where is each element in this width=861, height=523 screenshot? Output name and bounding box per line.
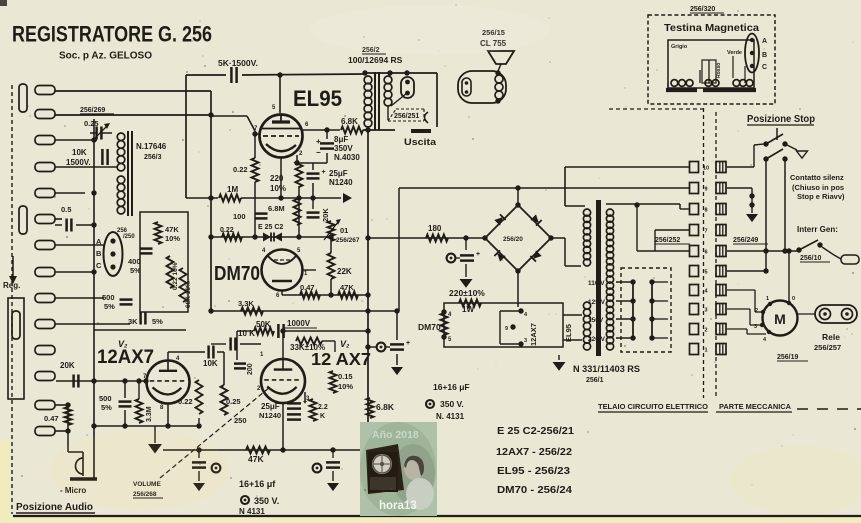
svg-text:10%: 10%	[338, 382, 353, 391]
svg-text:47K: 47K	[248, 454, 264, 464]
svg-text:7: 7	[704, 229, 707, 235]
svg-text:5%: 5%	[101, 403, 112, 412]
svg-text:16+16 μf: 16+16 μf	[239, 479, 276, 489]
svg-text:5%: 5%	[104, 302, 115, 311]
svg-text:350V: 350V	[334, 144, 353, 153]
svg-text:+: +	[322, 169, 326, 176]
svg-text:8μF: 8μF	[334, 135, 348, 144]
svg-text:100/12694 RS: 100/12694 RS	[348, 55, 403, 65]
svg-text:N.4030: N.4030	[334, 153, 360, 162]
svg-text:EL95: EL95	[293, 86, 342, 111]
svg-text:10%: 10%	[165, 234, 180, 243]
svg-text:20K: 20K	[60, 361, 75, 370]
svg-text:5K·1500V.: 5K·1500V.	[218, 58, 258, 68]
svg-text:1500V.: 1500V.	[66, 158, 91, 167]
svg-text:Stop e Riavv): Stop e Riavv)	[797, 192, 845, 201]
svg-text:DM70: DM70	[418, 322, 441, 332]
svg-text:256/249: 256/249	[733, 237, 758, 244]
svg-text:TELAIO CIRCUITO ELETTRICO: TELAIO CIRCUITO ELETTRICO	[598, 404, 709, 411]
svg-text:V₂: V₂	[340, 339, 350, 349]
svg-text:100: 100	[233, 212, 246, 221]
svg-text:150V: 150V	[588, 317, 604, 324]
svg-text:20K: 20K	[321, 208, 330, 222]
svg-text:DM70: DM70	[214, 263, 260, 285]
svg-text:Verde: Verde	[727, 50, 742, 56]
svg-text:220: 220	[270, 174, 284, 183]
svg-text:Rosso: Rosso	[716, 63, 722, 78]
svg-text:200: 200	[247, 363, 254, 375]
svg-text:9: 9	[505, 326, 508, 332]
svg-text:3: 3	[524, 338, 527, 344]
svg-text:2: 2	[755, 308, 758, 314]
svg-text:6.8K: 6.8K	[376, 402, 395, 412]
svg-text:220±10%: 220±10%	[449, 288, 485, 298]
svg-text:B: B	[762, 52, 767, 59]
svg-text:256/269: 256/269	[80, 107, 105, 114]
svg-text:400: 400	[128, 257, 141, 266]
svg-text:256/257: 256/257	[814, 343, 841, 352]
svg-text:Reg.: Reg.	[3, 281, 20, 290]
svg-text:C: C	[96, 261, 102, 270]
svg-text:+: +	[406, 340, 410, 347]
svg-text:350 V.: 350 V.	[254, 496, 279, 506]
svg-text:12AX7 - 256/22: 12AX7 - 256/22	[496, 447, 572, 458]
svg-text:E 25 C2: E 25 C2	[258, 224, 283, 231]
svg-text:0.5: 0.5	[61, 205, 71, 214]
svg-text:Año 2018: Año 2018	[372, 429, 419, 441]
svg-text:EL95 - 256/23: EL95 - 256/23	[497, 466, 571, 477]
svg-text:0.25: 0.25	[226, 397, 241, 406]
svg-text:25μF: 25μF	[261, 402, 280, 411]
svg-text:DM70 - 256/24: DM70 - 256/24	[497, 485, 572, 496]
svg-text:500: 500	[99, 394, 112, 403]
svg-text:01: 01	[340, 226, 348, 235]
svg-text:10K: 10K	[203, 359, 218, 368]
svg-text:0.15: 0.15	[338, 372, 353, 381]
svg-text:Posizione Audio: Posizione Audio	[16, 501, 93, 513]
svg-text:Posizione Stop: Posizione Stop	[747, 114, 815, 125]
svg-text:hora13: hora13	[379, 500, 417, 512]
svg-text:0.47: 0.47	[44, 414, 59, 423]
svg-text:A: A	[762, 38, 767, 45]
svg-text:REGISTRATORE G. 256: REGISTRATORE G. 256	[12, 22, 212, 47]
svg-text:3: 3	[704, 308, 707, 314]
svg-text:B: B	[96, 249, 102, 258]
svg-text:N1240: N1240	[259, 411, 281, 420]
svg-text:Uscita: Uscita	[404, 137, 437, 148]
svg-text:N.17646: N.17646	[136, 142, 167, 151]
svg-text:6: 6	[704, 250, 707, 256]
svg-text:110 V: 110 V	[588, 280, 605, 287]
svg-text:256/267: 256/267	[336, 237, 360, 244]
svg-text:/250: /250	[123, 234, 135, 240]
svg-text:256/10: 256/10	[800, 255, 822, 262]
svg-text:220 V: 220 V	[588, 336, 606, 343]
svg-text:12 AX7: 12 AX7	[311, 349, 371, 369]
svg-text:M: M	[774, 311, 786, 327]
svg-text:0.22: 0.22	[220, 227, 234, 234]
svg-text:6.8M: 6.8M	[268, 204, 285, 213]
svg-text:1000V: 1000V	[287, 319, 311, 328]
svg-text:47K: 47K	[165, 225, 179, 234]
svg-text:256/3: 256/3	[144, 154, 162, 161]
svg-text:12AX7: 12AX7	[97, 347, 154, 368]
svg-text:47K: 47K	[340, 283, 354, 292]
svg-text:50K: 50K	[256, 320, 271, 329]
svg-text:0.22 10%: 0.22 10%	[172, 262, 179, 290]
svg-text:Rele: Rele	[822, 332, 840, 342]
svg-text:N 331/11403 RS: N 331/11403 RS	[573, 364, 640, 375]
svg-text:3K: 3K	[128, 317, 138, 326]
svg-text:22K: 22K	[337, 267, 352, 276]
svg-text:E 25 C2-256/21: E 25 C2-256/21	[497, 426, 574, 437]
svg-text:5: 5	[704, 270, 707, 276]
svg-text:2.2: 2.2	[318, 404, 328, 411]
svg-text:6.8K: 6.8K	[341, 117, 358, 126]
svg-text:Testina Magnetica: Testina Magnetica	[664, 22, 759, 34]
svg-text:0.22: 0.22	[233, 165, 248, 174]
svg-text:Grigio: Grigio	[671, 44, 688, 50]
svg-text:K: K	[320, 413, 325, 420]
svg-text:8: 8	[704, 208, 707, 214]
svg-text:3.3K: 3.3K	[238, 299, 254, 308]
svg-text:250: 250	[234, 416, 247, 425]
svg-text:68K 10%: 68K 10%	[185, 281, 192, 308]
svg-text:Interr Gen:: Interr Gen:	[797, 225, 838, 234]
svg-text:256/20: 256/20	[503, 236, 523, 243]
svg-text:256/19: 256/19	[777, 354, 799, 361]
svg-text:3.3M: 3.3M	[146, 406, 153, 422]
svg-text:0: 0	[792, 296, 795, 302]
svg-text:2: 2	[704, 328, 707, 334]
svg-text:+: +	[316, 137, 321, 146]
svg-text:350 V.: 350 V.	[440, 399, 464, 409]
svg-text:256/251: 256/251	[394, 113, 419, 120]
svg-text:(Chiuso in pos: (Chiuso in pos	[792, 183, 844, 192]
svg-text:1W: 1W	[462, 305, 474, 314]
svg-text:Contatto silenz: Contatto silenz	[790, 173, 844, 182]
svg-text:256/252: 256/252	[655, 237, 680, 244]
svg-text:3: 3	[754, 324, 757, 330]
svg-text:Soc. p Az. GELOSO: Soc. p Az. GELOSO	[59, 50, 152, 62]
svg-text:5%: 5%	[152, 317, 163, 326]
svg-text:9: 9	[704, 187, 707, 193]
svg-text:A: A	[96, 237, 102, 246]
svg-text:−: −	[316, 148, 321, 157]
svg-text:180: 180	[428, 224, 442, 233]
svg-text:10K: 10K	[72, 148, 87, 157]
svg-text:0.22: 0.22	[178, 397, 193, 406]
svg-text:+: +	[476, 251, 480, 258]
svg-text:25μF: 25μF	[329, 169, 348, 178]
svg-text:10%: 10%	[270, 184, 286, 193]
svg-text:5%: 5%	[130, 266, 141, 275]
svg-text:0.47: 0.47	[300, 283, 315, 292]
svg-text:N1240: N1240	[329, 178, 353, 187]
svg-text:C: C	[762, 64, 767, 71]
svg-text:1: 1	[704, 348, 707, 354]
svg-text:125 V: 125 V	[588, 299, 606, 306]
svg-text:500: 500	[102, 293, 115, 302]
svg-text:12AX7: 12AX7	[529, 323, 538, 346]
svg-text:1: 1	[766, 296, 769, 302]
svg-text:N 4131: N 4131	[239, 507, 265, 516]
svg-text:16+16 μF: 16+16 μF	[433, 382, 470, 392]
svg-text:PARTE MECCANICA: PARTE MECCANICA	[719, 404, 791, 411]
svg-text:N. 4131: N. 4131	[436, 412, 465, 421]
svg-text:256/1: 256/1	[586, 377, 604, 384]
